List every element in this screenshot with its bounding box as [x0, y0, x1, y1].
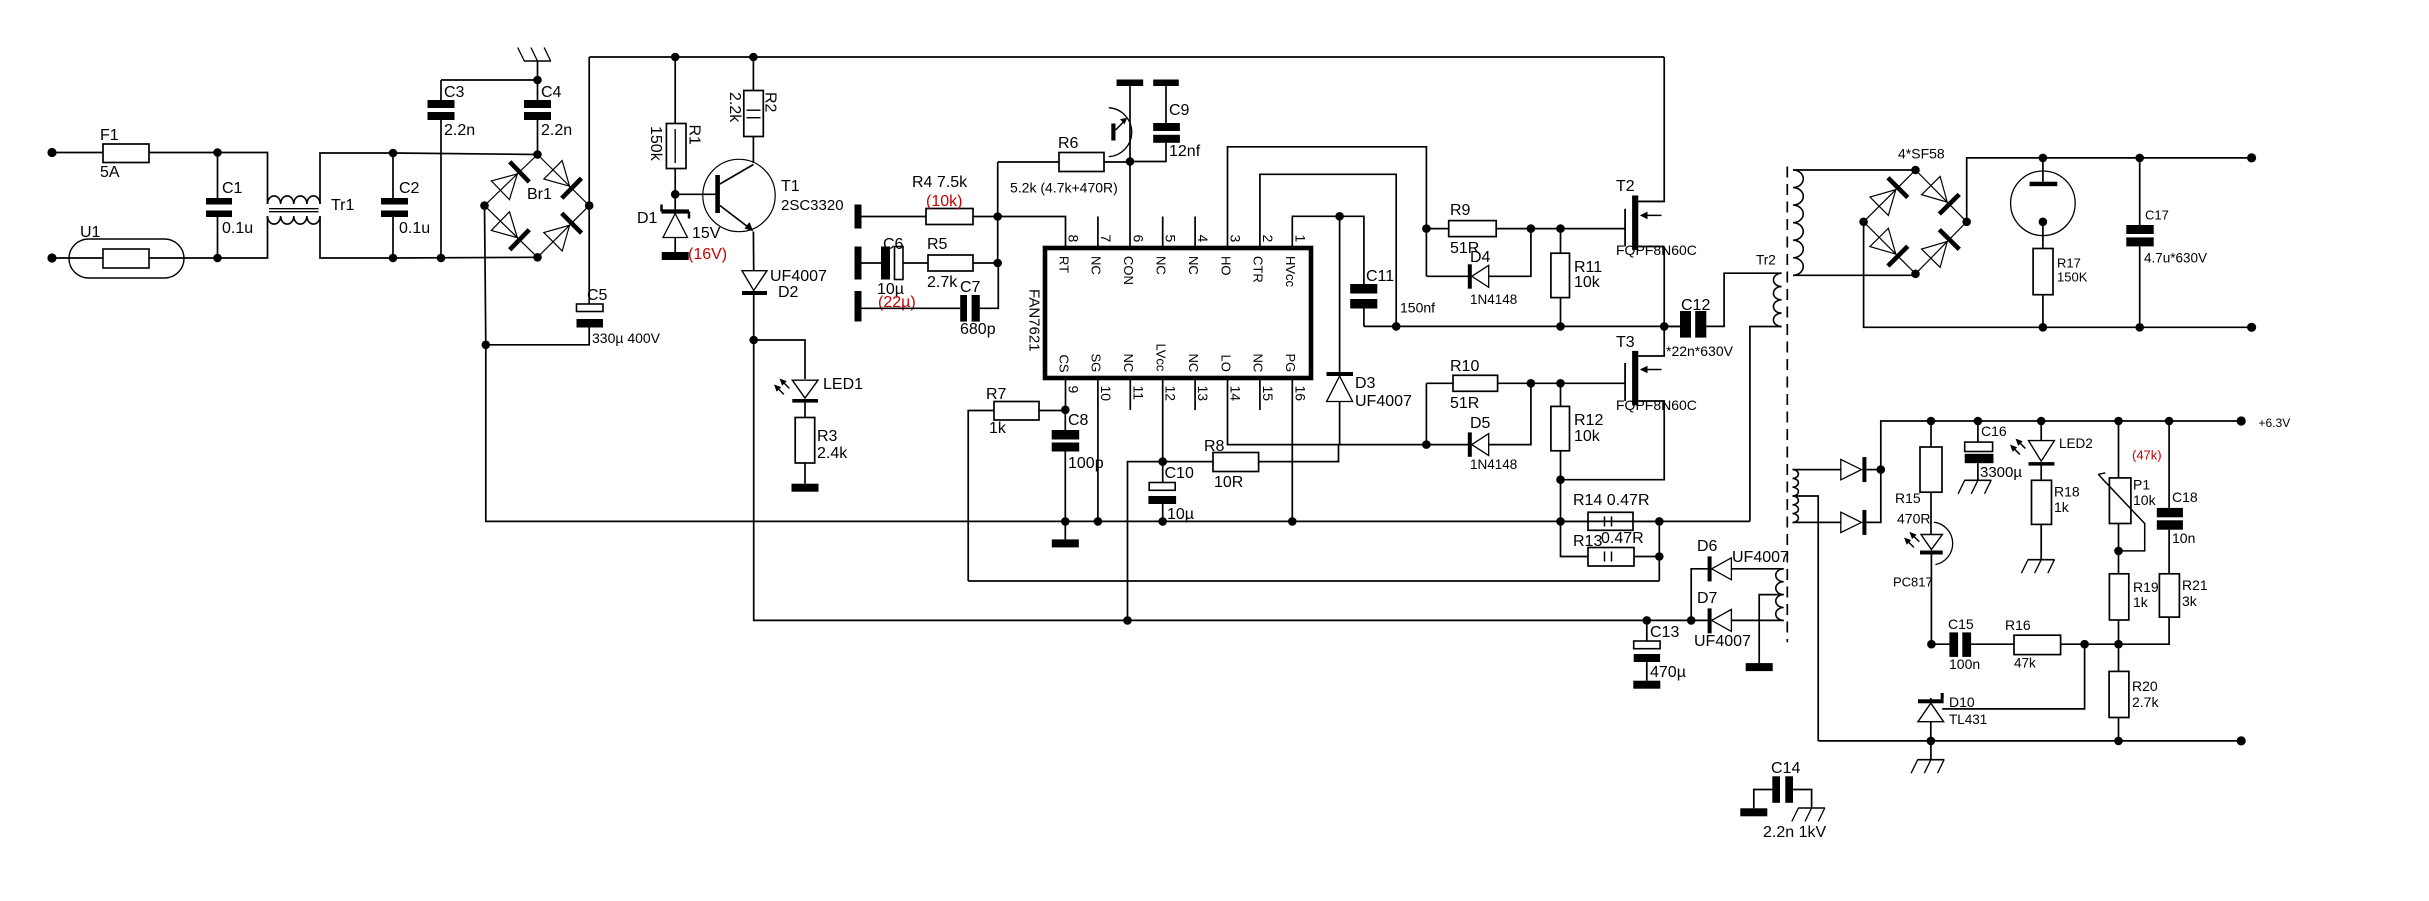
tube cathode node	[2039, 218, 2048, 227]
terminal bar C9	[1153, 80, 1179, 87]
node R16 right	[2080, 640, 2089, 649]
diode D2	[742, 268, 827, 340]
svg-text:2.2n: 2.2n	[541, 122, 572, 139]
terminal LV gnd	[2237, 736, 2246, 745]
node C2 top	[389, 149, 398, 158]
diode LV upper	[1793, 457, 1881, 482]
wire input to fuse	[52, 152, 103, 154]
svg-text:C7: C7	[960, 279, 981, 296]
svg-text:10k: 10k	[1574, 274, 1601, 291]
node CON	[1126, 157, 1135, 166]
svg-text:LVcc: LVcc	[1154, 344, 1169, 372]
wire ground stub	[537, 61, 539, 80]
earth ground top	[518, 48, 551, 62]
svg-text:F1: F1	[100, 127, 119, 144]
svg-text:R5: R5	[927, 236, 948, 253]
svg-text:C4: C4	[541, 84, 562, 101]
IC FAN7621 label	[1026, 289, 1043, 352]
svg-text:C15: C15	[1948, 616, 1974, 632]
tube anode	[2011, 158, 2076, 236]
node C5 minus	[482, 341, 491, 350]
svg-text:2.7k: 2.7k	[2132, 694, 2159, 710]
node LED1 branch	[749, 336, 758, 345]
capacitor C18	[2157, 421, 2198, 574]
resistor R11	[1551, 229, 1602, 327]
svg-text:C18: C18	[2172, 489, 2198, 505]
svg-text:C10: C10	[1165, 465, 1194, 482]
pin numbers bottom	[1066, 386, 1309, 402]
svg-text:150K: 150K	[2057, 270, 2088, 285]
svg-text:D5: D5	[1470, 415, 1491, 432]
svg-text:12nf: 12nf	[1169, 143, 1201, 160]
svg-text:T1: T1	[781, 178, 800, 195]
pin 13 stub	[1194, 378, 1196, 410]
mosfet T3	[1561, 326, 1697, 479]
svg-text:FAN7621: FAN7621	[1026, 289, 1043, 352]
node R20 bottom	[2114, 737, 2123, 746]
svg-text:D6: D6	[1697, 538, 1718, 555]
svg-text:150k: 150k	[647, 126, 664, 162]
svg-text:5.2k (4.7k+470R): 5.2k (4.7k+470R)	[1010, 180, 1118, 196]
node R17 bottom	[2039, 323, 2048, 332]
svg-text:PG: PG	[1283, 354, 1298, 373]
wire top HV rail	[589, 56, 1664, 58]
diode D4	[1426, 229, 1531, 307]
wire feedback line2	[968, 580, 1659, 582]
label +6.3V	[2259, 416, 2291, 430]
svg-text:UF4007: UF4007	[1732, 549, 1789, 566]
svg-text:NC: NC	[1186, 354, 1201, 373]
node D5 right up	[1527, 379, 1536, 388]
choke Tr1 label	[331, 197, 355, 214]
node PG rail	[1288, 517, 1297, 526]
svg-text:Tr1: Tr1	[331, 197, 355, 214]
wire CON down to pin6	[1129, 162, 1131, 249]
resistor R21	[2159, 574, 2207, 617]
node R5 out	[993, 259, 1002, 268]
capacitor C2	[381, 153, 430, 258]
svg-text:R7: R7	[986, 386, 1007, 403]
svg-text:R19: R19	[2133, 579, 2159, 595]
node RT	[993, 212, 1002, 221]
node D6 branch	[1687, 616, 1696, 625]
capacitor C9	[1130, 86, 1201, 162]
bridge Br1 label	[527, 186, 552, 203]
svg-text:C16: C16	[1981, 423, 2007, 439]
svg-text:10k: 10k	[2133, 492, 2157, 508]
svg-text:C1: C1	[222, 180, 243, 197]
wire node to Tr1 corner	[218, 153, 268, 205]
wire fuse to node C1	[149, 152, 218, 154]
svg-text:SG: SG	[1089, 354, 1104, 373]
svg-text:LED1: LED1	[823, 376, 863, 393]
terminal bar osc	[1117, 80, 1144, 87]
capacitor C15	[1931, 616, 2014, 672]
svg-text:TL431: TL431	[1949, 712, 1987, 727]
wire branch to LED1	[754, 340, 805, 379]
resistor R12	[1551, 383, 1604, 479]
svg-text:Br1: Br1	[527, 186, 552, 203]
node R10 left	[1422, 440, 1431, 449]
node R11 top	[1556, 224, 1565, 233]
svg-text:2SC3320: 2SC3320	[781, 197, 844, 214]
svg-text:C5: C5	[587, 287, 608, 304]
svg-text:C17: C17	[2145, 208, 2169, 223]
svg-text:15V: 15V	[692, 225, 721, 242]
pin 10 wire SG	[1097, 378, 1099, 521]
optocoupler PC817 led	[1893, 522, 1953, 644]
svg-text:3k: 3k	[2182, 593, 2198, 609]
pin 5 stub	[1162, 217, 1164, 249]
resistor R4	[862, 174, 998, 225]
svg-text:51R: 51R	[1450, 395, 1479, 412]
node LV rect out	[1877, 465, 1886, 474]
svg-text:10n: 10n	[2172, 530, 2195, 546]
node R14 left rail	[1556, 517, 1565, 526]
svg-text:(10k): (10k)	[926, 193, 962, 210]
diode D5	[1426, 383, 1531, 472]
svg-text:2.2k: 2.2k	[726, 92, 743, 123]
svg-text:(16V): (16V)	[688, 246, 727, 263]
bridge Br1 diode bottom-right	[544, 213, 582, 251]
wire +6.3V rail	[1881, 421, 2241, 470]
node Br1 top	[533, 150, 542, 159]
terminal bar C6	[855, 247, 862, 280]
svg-text:2.2n 1kV: 2.2n 1kV	[1763, 824, 1826, 841]
svg-text:330µ 400V: 330µ 400V	[592, 330, 661, 346]
wire aux line3 to D7	[1128, 619, 1708, 621]
svg-text:1k: 1k	[2133, 594, 2149, 610]
wire LV ground rail	[1818, 740, 2241, 742]
resistor R17	[2033, 222, 2088, 327]
node C17 bottom	[2135, 323, 2144, 332]
wire HV rail corner down to T2 drain	[1638, 57, 1664, 201]
svg-text:12: 12	[1163, 386, 1179, 402]
node CS C8	[1061, 406, 1070, 415]
svg-text:3300µ: 3300µ	[1980, 464, 2022, 481]
svg-text:LED2: LED2	[2059, 436, 2093, 451]
oscillator transistor	[1109, 108, 1132, 157]
node T1 base	[671, 190, 680, 199]
svg-text:1k: 1k	[989, 420, 1007, 437]
svg-text:R9: R9	[1450, 202, 1471, 219]
resistor R9	[1426, 202, 1625, 257]
lamp U1	[69, 224, 184, 278]
node R19 bottom	[2114, 640, 2123, 649]
pin 9 wire CS	[1065, 378, 1067, 410]
svg-text:R18: R18	[2054, 484, 2080, 500]
bridge Br1 diode bottom-left	[491, 212, 529, 250]
pin names bottom	[1056, 344, 1298, 373]
potentiometer P1	[2098, 421, 2161, 551]
input terminal N (neutral)	[47, 253, 56, 262]
resistor R5	[927, 236, 998, 291]
wire Br1 plus up	[588, 57, 590, 206]
resistor R18	[2021, 466, 2079, 574]
pin 12 wire LVcc	[1162, 378, 1164, 462]
node C8 rail	[1061, 517, 1070, 526]
svg-text:T2: T2	[1616, 178, 1635, 195]
svg-text:CS: CS	[1056, 355, 1071, 373]
diode D7	[1694, 590, 1784, 650]
node R12 bottom	[1556, 475, 1565, 484]
svg-text:T3: T3	[1616, 334, 1635, 351]
resistor R10	[1426, 358, 1625, 445]
svg-text:LO: LO	[1218, 355, 1233, 372]
bridge Br1 frame	[485, 155, 590, 258]
pin 7 stub	[1097, 217, 1099, 249]
wire R12 to rail	[1560, 480, 1562, 522]
transformer Tr2 core	[1786, 167, 1788, 643]
svg-text:R14 0.47R: R14 0.47R	[1573, 492, 1650, 509]
wire to R21 bottom	[2119, 617, 2170, 644]
svg-text:R16: R16	[2005, 617, 2031, 633]
resistor R8	[1163, 438, 1339, 491]
svg-text:0.1u: 0.1u	[399, 220, 430, 237]
svg-text:R4 7.5k: R4 7.5k	[912, 174, 968, 191]
node line3 branch	[1123, 616, 1132, 625]
wire R13 node down	[1658, 521, 1660, 581]
resistor R3	[792, 403, 849, 492]
svg-text:R21: R21	[2182, 577, 2208, 593]
wire RT node vertical	[997, 162, 999, 263]
svg-text:NC: NC	[1251, 354, 1266, 373]
svg-text:4.7u*630V: 4.7u*630V	[2144, 251, 2207, 266]
svg-text:U1: U1	[80, 224, 101, 241]
node C13 top	[1643, 616, 1652, 625]
wire AC top to bridge	[393, 153, 538, 155]
node D4 right up	[1527, 224, 1536, 233]
svg-text:R2: R2	[762, 92, 779, 113]
node T2 source	[1660, 322, 1669, 331]
svg-text:NC: NC	[1154, 256, 1169, 275]
node P1 top	[2114, 417, 2123, 426]
wire LVcc branch down	[1128, 462, 1163, 621]
node SF58 right	[1962, 218, 1971, 227]
svg-text:UF4007: UF4007	[1355, 393, 1412, 410]
svg-text:1N4148: 1N4148	[1470, 292, 1517, 307]
bridge Br1 diode top-right	[544, 161, 582, 199]
node Br1 right	[585, 201, 594, 210]
resistor R19	[2109, 551, 2158, 644]
capacitor C17	[2126, 158, 2207, 327]
pin 8 wire RT	[998, 217, 1066, 249]
wire minus bus down	[486, 345, 1750, 522]
svg-text:CTR: CTR	[1251, 256, 1266, 283]
wire ground rail C3-C4	[441, 79, 538, 81]
node C18 top	[2165, 417, 2174, 426]
svg-text:10: 10	[1098, 386, 1114, 402]
svg-text:C13: C13	[1650, 624, 1679, 641]
wire T1 emitter down	[752, 232, 754, 271]
earth ground TL431	[1911, 741, 1944, 773]
diode D6	[1691, 538, 1789, 620]
svg-text:C8: C8	[1068, 412, 1089, 429]
capacitor C8	[1052, 410, 1104, 522]
svg-text:10R: 10R	[1214, 474, 1243, 491]
node C15 left	[1927, 640, 1936, 649]
svg-text:5A: 5A	[100, 164, 120, 181]
pin 3 wire HO	[1228, 147, 1427, 248]
capacitor C12	[1664, 273, 1781, 359]
svg-text:680p: 680p	[960, 321, 996, 338]
node LVcc	[1158, 457, 1167, 466]
svg-text:(47k): (47k)	[2132, 448, 2162, 463]
svg-text:R3: R3	[817, 428, 838, 445]
capacitor C10	[1148, 462, 1194, 523]
pin 14 wire LO	[1228, 378, 1427, 445]
node R11 bottom	[1556, 322, 1565, 331]
svg-text:P1: P1	[2133, 477, 2150, 493]
svg-text:R20: R20	[2132, 678, 2158, 694]
svg-text:470µ: 470µ	[1650, 664, 1686, 681]
terminal +6.3V	[2237, 416, 2246, 425]
svg-text:1: 1	[1292, 235, 1308, 243]
transformer Tr2 LV secondary	[1793, 470, 1799, 523]
svg-text:R12: R12	[1574, 412, 1603, 429]
wire AC bottom to bridge	[393, 256, 538, 259]
svg-text:0.47R: 0.47R	[1601, 530, 1644, 547]
bridge 4*SF58 diode bottom-right	[1922, 230, 1960, 268]
mosfet T2	[1616, 178, 1697, 326]
capacitor C16	[1958, 421, 2022, 494]
resistor R14	[1561, 492, 1660, 530]
node C3 bottom	[437, 254, 446, 263]
fuse F1	[100, 127, 149, 181]
led LED1	[774, 376, 863, 403]
svg-text:C2: C2	[399, 180, 420, 197]
svg-text:+6.3V: +6.3V	[2259, 416, 2291, 430]
svg-text:RT: RT	[1056, 256, 1071, 273]
pin names top	[1056, 256, 1298, 288]
svg-text:1k: 1k	[2054, 499, 2070, 515]
svg-text:UF4007: UF4007	[1694, 633, 1751, 650]
shunt D10 TL431	[1918, 693, 1987, 741]
capacitor C7	[862, 263, 999, 338]
resistor R6	[998, 135, 1130, 196]
svg-text:NC: NC	[1121, 354, 1136, 373]
capacitor C5	[486, 206, 661, 346]
transformer Tr2 primary	[1750, 273, 1782, 521]
zener D1	[637, 194, 727, 263]
svg-text:9: 9	[1066, 386, 1082, 394]
node R9 left	[1422, 224, 1431, 233]
wire LV center tap	[1793, 496, 1819, 741]
resistor R7	[968, 386, 1065, 581]
capacitor C4	[524, 80, 572, 155]
node SF58 top	[1911, 166, 1920, 175]
wire Br1 minus down	[485, 206, 486, 345]
terminal bar R4	[855, 205, 862, 229]
ground bar below C8	[1052, 521, 1079, 547]
svg-text:R1: R1	[686, 125, 703, 146]
svg-text:D10: D10	[1949, 694, 1975, 710]
node CTR mid	[1392, 322, 1401, 331]
svg-text:C3: C3	[444, 84, 465, 101]
capacitor C3	[428, 80, 476, 258]
wire TL431 ref	[1942, 644, 2084, 709]
svg-text:4*SF58: 4*SF58	[1898, 146, 1945, 162]
svg-text:R17: R17	[2057, 256, 2081, 271]
node C2 bottom	[389, 254, 398, 263]
node Br1 left	[480, 201, 489, 210]
capacitor C13	[1633, 620, 1686, 688]
resistor R20	[2109, 644, 2159, 741]
pin 11 stub	[1129, 378, 1131, 410]
wire osc vertical	[1129, 86, 1131, 162]
svg-text:7: 7	[1098, 235, 1114, 243]
node R14 right rail	[1655, 517, 1664, 526]
bridge 4*SF58 diode top-left	[1870, 178, 1908, 216]
svg-text:FQPF8N60C: FQPF8N60C	[1616, 242, 1697, 258]
svg-text:2.2n: 2.2n	[444, 122, 475, 139]
choke Tr1 bottom winding	[268, 216, 321, 224]
transformer Tr2 HV secondary	[1793, 170, 1916, 275]
pin 16 wire PG	[1291, 378, 1293, 521]
resistor R1	[647, 57, 703, 194]
bridge 4*SF58 frame	[1864, 170, 1967, 274]
svg-text:C14: C14	[1771, 760, 1800, 777]
svg-text:NC: NC	[1186, 256, 1201, 275]
svg-text:Tr2: Tr2	[1756, 253, 1776, 268]
svg-text:C6: C6	[883, 236, 904, 253]
svg-text:D2: D2	[778, 284, 799, 301]
node R13 right	[1655, 552, 1664, 561]
wire mid HV line	[1364, 325, 1680, 327]
node C17 top	[2135, 154, 2144, 163]
svg-text:14: 14	[1228, 386, 1244, 402]
svg-text:3: 3	[1228, 235, 1244, 243]
capacitor C1	[206, 153, 253, 259]
svg-text:2: 2	[1260, 235, 1276, 243]
node SF58 left	[1859, 218, 1868, 227]
bridge 4*SF58 diode bottom-left	[1870, 228, 1908, 266]
svg-text:13: 13	[1195, 386, 1211, 402]
IC U2 FAN7621 body	[1045, 248, 1311, 378]
wire neutral	[52, 257, 218, 259]
svg-text:FQPF8N60C: FQPF8N60C	[1616, 397, 1697, 413]
pin 15 stub	[1259, 378, 1261, 410]
wire fb node row	[2085, 643, 2119, 645]
svg-text:47k: 47k	[2014, 656, 2036, 671]
node C1 top	[213, 148, 222, 157]
svg-text:10µ: 10µ	[1167, 506, 1194, 523]
diode D3	[1327, 216, 1413, 444]
svg-text:150nf: 150nf	[1400, 300, 1435, 316]
svg-text:15: 15	[1260, 386, 1276, 402]
wire to Tr1 bottom	[218, 216, 268, 258]
svg-text:C12: C12	[1681, 297, 1710, 314]
node ground C4	[533, 76, 542, 85]
svg-text:R8: R8	[1204, 438, 1225, 455]
svg-text:11: 11	[1130, 386, 1146, 401]
svg-text:8: 8	[1066, 235, 1082, 243]
node HVcc D3	[1335, 212, 1344, 221]
capacitor C14	[1740, 760, 1826, 841]
svg-text:C9: C9	[1169, 102, 1190, 119]
node LED2 top	[2037, 417, 2046, 426]
svg-text:HO: HO	[1218, 256, 1233, 276]
svg-text:HVcc: HVcc	[1283, 256, 1298, 288]
bridge 4*SF58 diode top-right	[1922, 176, 1960, 214]
pin numbers top	[1066, 235, 1309, 243]
wire SF58 minus	[1864, 222, 2252, 327]
svg-text:2.7k: 2.7k	[927, 274, 958, 291]
node C1 bottom	[213, 254, 222, 263]
capacitor C6	[862, 236, 929, 311]
svg-text:R10: R10	[1450, 358, 1479, 375]
svg-text:R15: R15	[1895, 490, 1921, 506]
